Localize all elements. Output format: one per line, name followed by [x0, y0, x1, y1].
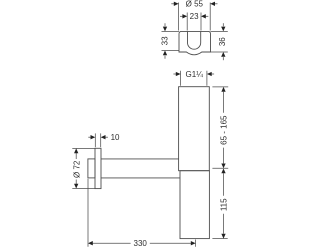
svg-text:23: 23: [190, 12, 199, 21]
dim 330 arrow right: [191, 241, 196, 245]
dim 65-165 arrow top: [221, 87, 225, 92]
inlet pipe bottom line: [101, 177, 180, 179]
dim Ø72 arrow bottom: [74, 184, 78, 189]
dim 10 arrow right: [101, 135, 108, 139]
dim 65-165 extension line middle: [212, 167, 228, 169]
dim Ø55 arrow right: [210, 2, 217, 6]
dim 33 arrow bottom: [163, 51, 167, 59]
wall bracket outline (top view): [179, 31, 211, 54]
dim 23 arrow left: [180, 14, 187, 18]
dim 33 arrow top: [163, 23, 167, 31]
svg-text:330: 330: [134, 239, 148, 248]
dim 10 extension line right: [100, 133, 102, 147]
siphon lower body cup: [180, 171, 209, 239]
dim 36 extension line bottom: [211, 51, 228, 53]
dim 330 line left segment: [93, 242, 131, 244]
dim 23 extension line left: [186, 13, 188, 31]
dim Ø72 line upper segment: [75, 153, 77, 160]
dim 36 extension line top: [211, 30, 228, 32]
dim 36 arrow bottom: [221, 52, 225, 60]
dim 65-165 extension line top: [212, 86, 228, 88]
dim 65-165 line lower segment: [223, 148, 225, 164]
wall escutcheon disc: [95, 148, 101, 188]
dim G1 1/4 extension line right: [206, 71, 208, 86]
dim G1 1/4 extension line left: [180, 71, 182, 86]
dim G1 1/4 arrow left: [173, 72, 180, 76]
dim 23 extension line right: [200, 13, 202, 31]
inlet pipe top line: [101, 158, 179, 160]
svg-text:36: 36: [218, 37, 227, 46]
dim 115 line upper segment: [223, 173, 225, 196]
dim Ø72 extension line top: [72, 147, 95, 149]
dim Ø55 arrow left: [171, 2, 178, 6]
siphon upper body tube (front view): [179, 87, 210, 171]
dim Ø55 extension line left: [178, 3, 180, 31]
dim Ø72 arrow top: [74, 148, 78, 153]
dim 33 extension line bottom: [162, 50, 180, 52]
dim 115 arrow top: [221, 169, 225, 174]
svg-text:Ø 72: Ø 72: [72, 160, 81, 178]
dim 65-165 line upper segment: [223, 92, 225, 113]
svg-text:Ø 55: Ø 55: [186, 0, 204, 8]
dim 33 extension line top: [162, 30, 180, 32]
bracket U slot: [188, 32, 201, 49]
dim G1 1/4 arrow right: [207, 72, 214, 76]
svg-text:115: 115: [219, 198, 228, 211]
dim 10 arrow left: [88, 135, 95, 139]
dim 23 arrow right: [201, 14, 208, 18]
dim 115 arrow bottom: [221, 234, 225, 239]
svg-text:65 - 165: 65 - 165: [219, 115, 228, 145]
dim Ø72 extension line bottom: [72, 188, 95, 190]
dim 115 extension line bottom: [212, 238, 227, 240]
dim Ø55 extension line right: [209, 3, 211, 31]
svg-text:G1¼: G1¼: [186, 70, 204, 79]
dim 10 extension line left: [94, 133, 96, 147]
svg-text:10: 10: [111, 133, 120, 142]
dim 65-165 arrow bottom: [221, 164, 225, 169]
dim 330 line right segment: [150, 242, 191, 244]
svg-text:33: 33: [160, 36, 169, 45]
dim 36 arrow top: [221, 23, 225, 31]
dim 330 extension line right: [195, 240, 197, 247]
dim 115 line lower segment: [223, 214, 225, 234]
wall pipe stub: [88, 159, 95, 178]
dim Ø72 line lower segment: [75, 180, 77, 185]
dim 330 arrow left: [88, 241, 93, 245]
dim 330 extension line left: [87, 179, 89, 247]
